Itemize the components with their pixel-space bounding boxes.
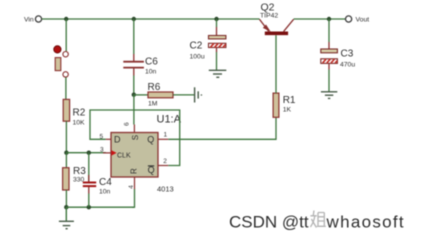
resistor R1 xyxy=(273,93,296,117)
svg-text:Vout: Vout xyxy=(356,17,370,24)
svg-text:S: S xyxy=(131,135,140,140)
pin 4 R (bottom) xyxy=(128,168,138,189)
pin 3 CLK (left) xyxy=(100,147,131,160)
junction node H (top rail / C2) xyxy=(214,17,218,21)
svg-text:C3: C3 xyxy=(341,49,354,60)
svg-text:10n: 10n xyxy=(99,188,111,195)
svg-text:C4: C4 xyxy=(99,177,112,188)
pin 2 Qbar (right) xyxy=(148,158,169,175)
junction node F (top rail / C6) xyxy=(132,17,136,21)
junction node B (R2/R3/CLK) xyxy=(64,151,68,155)
wire R1 to Q2 base xyxy=(275,35,277,93)
resistor R2 xyxy=(63,99,86,126)
capacitor C3 (electrolytic) xyxy=(321,19,356,92)
junction node D (bottom rail / ground) xyxy=(64,205,68,209)
svg-text:470u: 470u xyxy=(340,62,355,69)
pin 1 Q (right) xyxy=(147,131,168,144)
wire top rail right (Q2 collector to Vout) xyxy=(294,18,346,20)
ground GND3 (below C2) xyxy=(209,70,227,77)
junction node E (bottom rail / C4 bottom) xyxy=(87,205,91,209)
terminal Vout xyxy=(346,16,370,24)
svg-text:R2: R2 xyxy=(73,108,86,119)
ic U1:A 4013 body xyxy=(111,114,182,194)
svg-text:R3: R3 xyxy=(73,166,86,177)
svg-text:C6: C6 xyxy=(145,57,158,68)
wire button column from rail xyxy=(65,19,67,52)
svg-text:R6: R6 xyxy=(148,82,161,93)
junction node I (top rail right / C3) xyxy=(327,17,331,21)
wire R6 to ground xyxy=(173,94,194,96)
svg-text:4: 4 xyxy=(128,185,135,189)
svg-text:R1: R1 xyxy=(283,95,296,106)
terminal Vin xyxy=(24,16,42,24)
wire R3 to bottom rail xyxy=(65,190,67,207)
svg-text:10K: 10K xyxy=(73,120,86,127)
svg-text:10n: 10n xyxy=(145,69,157,76)
junction node G (C6 / R6 / U1 S pin) xyxy=(132,93,136,97)
svg-text:1: 1 xyxy=(164,131,168,138)
wire node G to U1 S pin xyxy=(133,95,135,125)
svg-text:TIP42: TIP42 xyxy=(260,13,278,20)
wire CLK row xyxy=(66,152,105,154)
svg-text:1K: 1K xyxy=(283,107,292,114)
svg-text:Vin: Vin xyxy=(24,17,34,24)
ground GND2 (rotated, right of R6) xyxy=(195,87,202,102)
svg-text:C2: C2 xyxy=(190,41,203,52)
watermark CSDN xyxy=(229,211,405,232)
capacitor C2 (electrolytic) xyxy=(190,19,226,70)
svg-text:CLK: CLK xyxy=(117,152,131,159)
pin 5 D (left) xyxy=(100,134,122,145)
svg-text:1M: 1M xyxy=(148,100,158,107)
svg-text:100u: 100u xyxy=(190,54,205,61)
svg-text:Q: Q xyxy=(148,165,155,175)
svg-text:D: D xyxy=(114,135,121,145)
wire bottom rail xyxy=(66,206,134,208)
svg-text:2: 2 xyxy=(163,158,167,165)
resistor R3 xyxy=(63,166,87,190)
svg-text:4013: 4013 xyxy=(157,185,174,194)
svg-text:6: 6 xyxy=(123,122,130,126)
svg-text:CSDN @tt: CSDN @tt xyxy=(229,213,309,232)
svg-text:R: R xyxy=(129,168,138,174)
svg-text:3: 3 xyxy=(100,147,104,154)
svg-text:Q: Q xyxy=(147,135,154,145)
ground GND4 (below C3) xyxy=(321,92,337,99)
transistor Q2 TIP42 xyxy=(260,2,294,34)
wire node G to R6 xyxy=(134,94,148,96)
wire top rail left (Vin to Q2 emitter) xyxy=(42,18,260,20)
svg-text:whaosoft: whaosoft xyxy=(326,213,405,232)
wire pin 4 to bottom rail xyxy=(132,189,135,207)
junction node A (top rail / button column) xyxy=(64,17,68,21)
wire R2 to CLK node xyxy=(65,121,67,153)
wire D feedback loop (Qbar to D) xyxy=(90,110,180,166)
pin 6 S (top) xyxy=(123,122,140,140)
resistor R6 xyxy=(148,82,174,107)
capacitor C6 xyxy=(123,19,158,95)
wire Q output to R1 xyxy=(168,117,276,139)
pushbutton S1 xyxy=(54,46,68,77)
svg-text:U1:A: U1:A xyxy=(157,114,182,126)
junction node C (CLK row / C4 top) xyxy=(87,151,91,155)
capacitor C4 xyxy=(83,153,112,208)
ground GND1 (below node D) xyxy=(59,207,74,229)
wire button to R2 xyxy=(65,77,67,99)
wire node B to R3 xyxy=(65,153,67,168)
